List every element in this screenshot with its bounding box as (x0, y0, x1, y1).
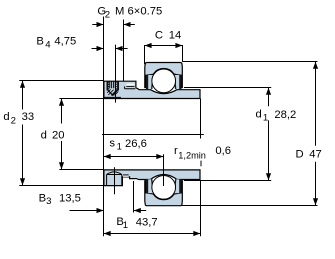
collar notch white top (126, 84, 134, 87)
outer ring bottom half (145, 181, 183, 206)
svg-text:28,2: 28,2 (274, 109, 296, 121)
svg-text:2: 2 (11, 115, 16, 126)
d2 dimension line (22, 81, 24, 186)
set screw bottom (outside view) (107, 167, 122, 194)
d arrows (59, 99, 64, 106)
r leader (200, 161, 202, 167)
B1 arrows (104, 231, 111, 236)
B3 dimension (70, 210, 147, 212)
seal left bottom (146, 179, 153, 193)
outer ring top half (145, 63, 183, 88)
svg-text:26,6: 26,6 (125, 138, 147, 150)
svg-text:13,5: 13,5 (59, 193, 81, 205)
B4 dimension (92, 48, 128, 50)
svg-text:s: s (109, 137, 115, 149)
dimension lines (19, 17, 317, 237)
svg-text:C: C (155, 29, 163, 41)
svg-text:B: B (39, 193, 47, 205)
svg-text:0,6: 0,6 (215, 145, 231, 157)
svg-text:d: d (3, 111, 9, 123)
svg-text:3: 3 (46, 196, 51, 207)
inner ring right face extension (200, 99, 202, 139)
C arrows (145, 43, 152, 48)
ball top (152, 69, 176, 93)
d1 arrows (266, 88, 271, 95)
centerline (102, 134, 204, 136)
collar notch white bottom (123, 175, 129, 177)
d extension lines (59, 99, 103, 170)
arrowheads (20, 22, 318, 236)
svg-text:d: d (256, 109, 262, 121)
seal left top (146, 75, 153, 89)
svg-text:d: d (41, 129, 47, 141)
svg-text:47: 47 (309, 149, 322, 161)
d1 extension lines (184, 88, 271, 181)
collar bottom line under screw (104, 96, 121, 98)
C dimension (145, 45, 183, 47)
ball bottom (152, 175, 176, 199)
d2 extension lines (19, 81, 104, 186)
G2 arrows (97, 22, 104, 27)
svg-text:14: 14 (169, 29, 182, 41)
seal right bottom (175, 179, 182, 193)
D arrows (313, 62, 318, 69)
svg-text:4: 4 (45, 39, 51, 50)
long extension line collar left face (103, 17, 105, 237)
B4 arrows (97, 46, 104, 51)
D dimension line (315, 62, 317, 206)
screw axis top (115, 45, 117, 103)
d1 dimension line (268, 88, 270, 181)
d dimension line (61, 99, 63, 170)
svg-text:D: D (296, 149, 304, 161)
svg-text:B: B (36, 36, 44, 48)
svg-text:M 6×0.75: M 6×0.75 (115, 5, 162, 17)
svg-text:33: 33 (22, 111, 35, 123)
d2 arrows (20, 81, 25, 88)
seal right top (175, 75, 182, 89)
set screw top (section, hatched) (107, 81, 120, 95)
s1 arrows (104, 154, 111, 159)
svg-text:1,2min: 1,2min (178, 151, 206, 161)
svg-text:2: 2 (105, 9, 110, 20)
B3 arrows (97, 208, 104, 213)
svg-text:43,7: 43,7 (136, 216, 158, 228)
svg-text:1: 1 (263, 112, 268, 123)
inner ring bottom half with collar (104, 170, 200, 186)
D extension lines (182, 62, 318, 206)
s1 dimension (104, 156, 164, 158)
svg-text:4,75: 4,75 (54, 36, 76, 48)
svg-text:1: 1 (117, 142, 122, 153)
svg-text:1: 1 (123, 220, 128, 231)
svg-text:20: 20 (52, 129, 65, 141)
B1 dimension (104, 233, 201, 235)
inner ring top half with eccentric locking collar (104, 81, 200, 98)
collar recess line top (125, 86, 136, 88)
G2 dimension (92, 24, 135, 26)
